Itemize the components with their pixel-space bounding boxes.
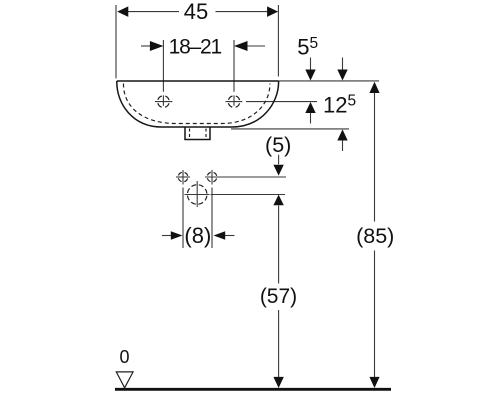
svg-text:(8): (8)	[184, 223, 211, 248]
svg-text:(5): (5)	[265, 133, 291, 157]
svg-text:45: 45	[184, 0, 208, 24]
svg-text:0: 0	[119, 347, 129, 367]
svg-text:(85): (85)	[356, 224, 394, 248]
svg-text:18–21: 18–21	[169, 36, 222, 59]
svg-text:(57): (57)	[260, 285, 297, 308]
